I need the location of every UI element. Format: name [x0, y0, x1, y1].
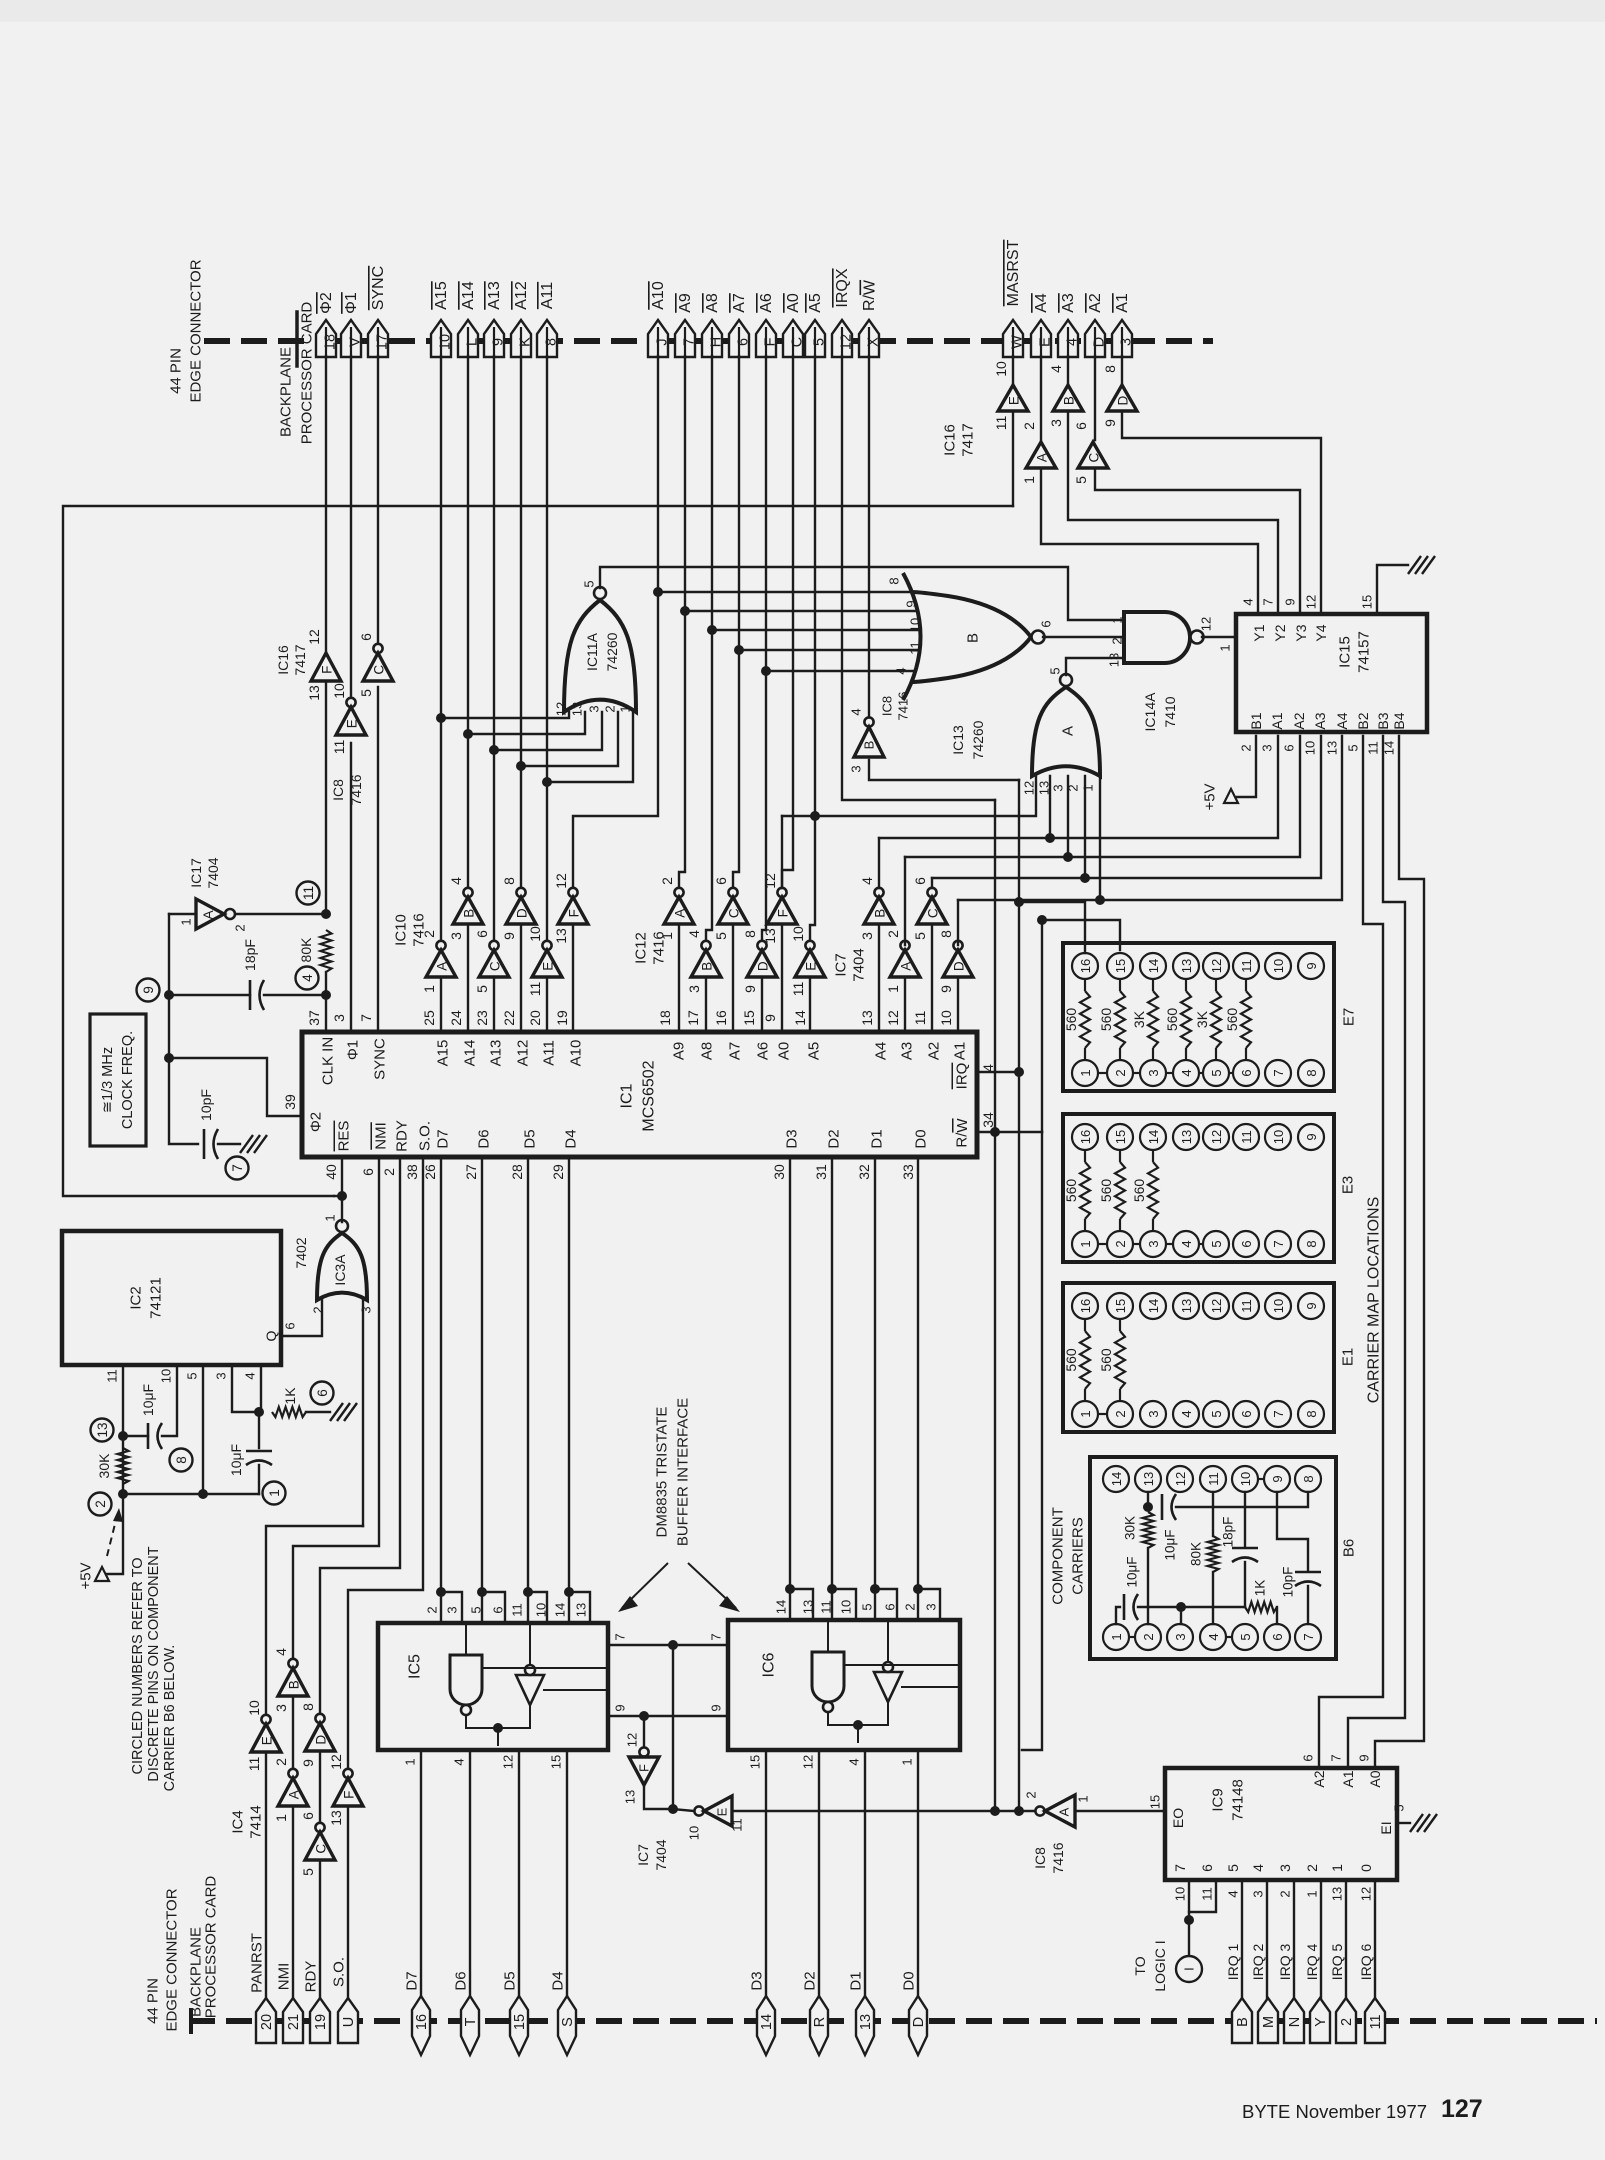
svg-text:9: 9: [1102, 419, 1118, 427]
svg-text:E: E: [1038, 337, 1054, 347]
component carrier E1 pin circles: [1072, 1293, 1098, 1319]
svg-text:A4: A4: [873, 1042, 890, 1060]
IC5 internal NAND: [450, 1655, 482, 1705]
svg-text:F: F: [320, 666, 335, 674]
svg-text:0: 0: [1358, 1864, 1374, 1872]
svg-text:5: 5: [812, 338, 828, 346]
svg-text:B: B: [700, 962, 715, 971]
inverter IC8B (R/W buffer): [864, 717, 873, 726]
svg-text:10μF: 10μF: [228, 1444, 244, 1476]
svg-text:A3: A3: [1312, 712, 1328, 729]
wire gateA in13: [1049, 776, 1051, 838]
wire IC6 out 12: [818, 1750, 820, 1998]
svg-text:B6: B6: [1341, 1539, 1358, 1557]
svg-text:3: 3: [1146, 1069, 1161, 1076]
svg-text:5: 5: [300, 1868, 316, 1876]
wire IC7A out up: [904, 857, 906, 945]
svg-text:11: 11: [301, 886, 316, 900]
NAND gate IC14A 7410: [1124, 612, 1190, 663]
wire RDY chain lower: [319, 1862, 321, 1998]
IC5 internal inverter: [516, 1675, 544, 1705]
wire PANRST chain: [265, 1752, 267, 1998]
inverter IC7E: [694, 1806, 703, 1815]
svg-text:9: 9: [1304, 1302, 1319, 1309]
svg-text:15: 15: [748, 1755, 763, 1769]
wire B6 node3 run: [1138, 1606, 1245, 1608]
wire IC6 out 4: [864, 1750, 866, 1998]
svg-text:10: 10: [1271, 1299, 1286, 1313]
svg-text:≅1/3 MHz: ≅1/3 MHz: [100, 1047, 116, 1113]
wire B6 pin1 up: [1116, 1607, 1120, 1624]
svg-text:1: 1: [1329, 1864, 1345, 1872]
inverter IC12C: [728, 888, 737, 897]
svg-text:7404: 7404: [653, 1839, 669, 1870]
svg-text:4: 4: [1250, 1864, 1266, 1872]
svg-text:11: 11: [819, 1600, 834, 1614]
svg-text:A: A: [200, 910, 216, 920]
svg-text:560: 560: [1063, 1179, 1079, 1203]
svg-text:1: 1: [1218, 644, 1233, 651]
junction RW top: [1037, 915, 1047, 925]
svg-text:14: 14: [1146, 1130, 1161, 1144]
svg-text:1: 1: [1110, 616, 1125, 623]
run A-inv 878: [932, 736, 1321, 878]
svg-text:13: 13: [1037, 781, 1052, 795]
svg-text:B: B: [965, 633, 982, 643]
svg-text:20: 20: [527, 1010, 543, 1026]
svg-text:13: 13: [801, 1600, 816, 1614]
svg-text:11: 11: [1206, 1472, 1221, 1486]
node TO LOGIC 1: [1176, 1956, 1202, 1982]
svg-text:SYNC: SYNC: [370, 266, 387, 310]
buffer IC8E (phi1): [346, 698, 355, 707]
svg-text:21: 21: [286, 2014, 302, 2030]
junction IRQ top: [1014, 897, 1024, 907]
junction IRQ on run: [1014, 1806, 1024, 1816]
junction A-line at y=718: [436, 713, 446, 723]
svg-text:7: 7: [1261, 598, 1276, 605]
svg-text:15: 15: [1360, 595, 1375, 609]
svg-text:6: 6: [300, 1812, 316, 1820]
svg-text:C: C: [372, 665, 387, 675]
svg-text:13: 13: [1141, 1472, 1156, 1486]
svg-text:IRQ 3: IRQ 3: [1277, 1944, 1293, 1981]
svg-text:A11: A11: [541, 1040, 558, 1066]
svg-text:14: 14: [1146, 1299, 1161, 1313]
svg-text:8: 8: [1304, 1410, 1319, 1417]
svg-text:A3: A3: [899, 1042, 916, 1060]
svg-text:3: 3: [359, 1306, 374, 1313]
capacitor 10uF (B6 bottom): [1123, 1594, 1126, 1620]
svg-text:12: 12: [801, 1755, 816, 1769]
svg-text:N: N: [1287, 2017, 1303, 2027]
svg-text:2: 2: [425, 1606, 440, 1613]
edge pin Y: [1310, 1998, 1330, 2043]
svg-text:C: C: [314, 1844, 329, 1854]
svg-text:12: 12: [839, 334, 855, 350]
svg-text:2: 2: [885, 930, 901, 938]
wire IC2 pin10 down: [162, 1365, 177, 1436]
wire IRQ 2 line: [1266, 1880, 1268, 1998]
component carrier E3 resistors: [1084, 1150, 1086, 1162]
wire RW vertical b: [994, 800, 996, 1811]
wire IC9 pin7 down: [1188, 1880, 1190, 1920]
svg-text:B: B: [1235, 2017, 1251, 2027]
svg-text:10: 10: [527, 926, 543, 942]
wire node3 down: [258, 1412, 260, 1448]
wire IRQ 4 line: [1320, 1880, 1322, 1998]
wire 80K to CLKIN junction: [325, 972, 327, 995]
svg-text:+5V: +5V: [1202, 783, 1219, 810]
svg-text:IRQ: IRQ: [954, 1063, 971, 1090]
svg-text:1: 1: [1021, 476, 1037, 484]
svg-text:A8: A8: [704, 293, 721, 313]
svg-text:1: 1: [1109, 1633, 1124, 1640]
svg-text:6: 6: [883, 1603, 898, 1610]
wire D-line x441: [440, 1157, 442, 1623]
svg-text:I: I: [1182, 1967, 1197, 1971]
svg-text:7: 7: [709, 1633, 724, 1640]
OR gate A (IC13 74260): [1032, 687, 1100, 776]
svg-text:13: 13: [1179, 959, 1194, 973]
svg-text:10: 10: [331, 683, 347, 699]
svg-text:IRQ 5: IRQ 5: [1329, 1944, 1345, 1981]
svg-text:2: 2: [659, 877, 675, 885]
svg-text:1: 1: [273, 1814, 289, 1822]
wire A13 vertical: [493, 356, 495, 945]
inverter IC10A: [436, 941, 445, 950]
svg-text:B: B: [462, 909, 477, 918]
svg-text:4: 4: [1065, 338, 1081, 346]
svg-text:34: 34: [980, 1112, 996, 1128]
svg-text:IRQ 6: IRQ 6: [1358, 1944, 1374, 1981]
IC9 74148: [1165, 1768, 1397, 1880]
wire SO chain upper: [348, 1157, 423, 1776]
wire D stub x918: [918, 1589, 940, 1620]
svg-text:A: A: [435, 962, 450, 971]
svg-text:4: 4: [452, 1758, 467, 1765]
svg-text:10pF: 10pF: [198, 1089, 214, 1121]
svg-text:3: 3: [448, 932, 464, 940]
svg-text:BUFFER INTERFACE: BUFFER INTERFACE: [675, 1398, 692, 1546]
wire IRQ 5 line: [1345, 1880, 1347, 1998]
wire +5V drop: [106, 1494, 123, 1574]
svg-text:F: F: [776, 909, 791, 917]
svg-text:E: E: [260, 1736, 275, 1745]
svg-text:3: 3: [924, 1603, 939, 1610]
svg-text:IRQ 2: IRQ 2: [1250, 1944, 1266, 1981]
wire IC5 out 1: [420, 1750, 422, 1998]
svg-text:7: 7: [1271, 1410, 1286, 1417]
svg-text:15: 15: [1113, 1130, 1128, 1144]
svg-text:8: 8: [544, 338, 560, 346]
run A-inv 857: [905, 736, 1300, 857]
svg-text:IRQ 4: IRQ 4: [1304, 1944, 1320, 1981]
svg-text:4: 4: [300, 974, 315, 982]
svg-text:12: 12: [625, 1733, 640, 1747]
svg-text:A14: A14: [462, 1040, 479, 1067]
svg-text:80K: 80K: [298, 937, 314, 963]
capacitor 18pF (B6): [1232, 1547, 1258, 1550]
edge pin N: [1284, 1998, 1304, 2043]
svg-text:5: 5: [1392, 1804, 1407, 1811]
svg-text:12: 12: [1304, 595, 1319, 609]
svg-text:10: 10: [1271, 1130, 1286, 1144]
svg-text:Y4: Y4: [1313, 624, 1329, 641]
inverter IC7D: [953, 941, 962, 950]
IC5 internal wires: [465, 1623, 467, 1655]
junction IRQ at CPU stub: [1014, 1067, 1024, 1077]
+5V arrow (IC2): [95, 1567, 109, 1581]
capacitor 10uF (IC2 pin10): [147, 1423, 150, 1449]
svg-text:11: 11: [1200, 1887, 1215, 1901]
svg-text:IC11A: IC11A: [584, 632, 600, 671]
edge pin S (D4): [558, 1996, 576, 2055]
wire IC7C to CPU: [931, 924, 933, 1032]
svg-text:A2: A2: [1291, 712, 1307, 729]
wire gateA in3: [1067, 776, 1069, 857]
wire cap18 left: [169, 994, 250, 996]
wire gateA out: [1066, 658, 1124, 675]
wire B6 pin10 down: [1244, 1492, 1246, 1546]
svg-text:4: 4: [448, 877, 464, 885]
svg-text:D4: D4: [563, 1129, 580, 1148]
svg-text:A2: A2: [926, 1042, 943, 1060]
svg-text:4: 4: [980, 1064, 996, 1072]
svg-text:3: 3: [1146, 1410, 1161, 1417]
svg-text:5: 5: [185, 1372, 200, 1379]
svg-text:19: 19: [313, 2014, 329, 2030]
svg-text:1: 1: [1078, 1240, 1093, 1247]
wire IC2 pin4 down: [260, 1365, 262, 1412]
svg-text:A: A: [1057, 1807, 1072, 1816]
svg-text:IC17: IC17: [188, 858, 204, 888]
junction node osc bottom: [164, 1053, 174, 1063]
svg-text:560: 560: [1063, 1008, 1079, 1032]
wire IC2 pin11 down: [122, 1365, 124, 1494]
wire A3 (IC16B to Y2 run): [1068, 411, 1278, 614]
svg-text:D: D: [515, 908, 530, 918]
component carrier E1: [1063, 1283, 1334, 1432]
svg-text:8: 8: [1304, 1069, 1319, 1076]
junction node2: [118, 1489, 128, 1499]
svg-text:80K: 80K: [1189, 1542, 1204, 1566]
wire RW jog c: [1022, 1132, 1042, 1750]
svg-text:E: E: [1007, 396, 1022, 405]
run A-inv 900: [958, 736, 1342, 900]
svg-text:F: F: [342, 1791, 357, 1799]
svg-text:6: 6: [1073, 422, 1089, 430]
resistor 1K (IC2): [272, 1407, 306, 1417]
svg-text:A2: A2: [1087, 293, 1104, 313]
svg-text:A3: A3: [1060, 293, 1077, 313]
svg-text:38: 38: [404, 1164, 420, 1180]
svg-text:CLOCK FREQ.: CLOCK FREQ.: [120, 1031, 136, 1129]
svg-text:3: 3: [587, 705, 602, 712]
svg-text:13: 13: [574, 1603, 589, 1617]
svg-text:74148: 74148: [1230, 1779, 1247, 1821]
wire gateB input 5: [766, 670, 915, 672]
svg-text:A15: A15: [435, 1040, 452, 1067]
edge pin 21 (NMI): [283, 1998, 303, 2043]
svg-text:E: E: [715, 1807, 730, 1816]
wire B2 run: [1319, 736, 1383, 1768]
wire IC10A to CPU: [440, 977, 442, 1032]
svg-text:12: 12: [501, 1755, 516, 1769]
svg-text:A13: A13: [486, 281, 503, 310]
svg-text:7: 7: [1172, 1864, 1188, 1872]
svg-text:1: 1: [1076, 1795, 1091, 1802]
wire B6 pin9 jog: [1277, 1492, 1308, 1570]
wire A12 vertical: [520, 356, 522, 888]
svg-text:12: 12: [1209, 959, 1224, 973]
IC6 internal inverter: [874, 1672, 902, 1702]
svg-text:4: 4: [273, 1648, 289, 1656]
wire IC12F to CPU: [781, 924, 783, 1032]
edge pin 20 (PANRST): [256, 1998, 276, 2043]
wire pin7 enable: [608, 1644, 728, 1646]
wire B4 run: [1375, 736, 1424, 1768]
svg-text:5: 5: [713, 932, 729, 940]
svg-text:11: 11: [790, 982, 806, 997]
wire IC15 pin15 to gnd: [1377, 565, 1408, 614]
svg-text:A4: A4: [1334, 712, 1350, 729]
wire IC12F out up: [781, 816, 783, 888]
svg-text:12: 12: [885, 1010, 901, 1026]
capacitor 10uF (IC2 pin34 node): [246, 1450, 272, 1453]
edge pin R (D2): [810, 1996, 828, 2055]
svg-text:IC16: IC16: [942, 424, 959, 456]
svg-text:D2: D2: [826, 1129, 843, 1148]
svg-text:560: 560: [1063, 1348, 1079, 1372]
svg-text:A0: A0: [785, 293, 802, 313]
svg-text:7: 7: [1301, 1633, 1316, 1640]
wire IC10B to CPU: [467, 924, 469, 1032]
svg-text:4: 4: [1206, 1633, 1221, 1640]
wire IC5 out 4: [469, 1750, 471, 1998]
edge pin 12 (IRQX): [832, 320, 852, 357]
buffer IC16D: [1107, 385, 1137, 411]
wire IC10E to CPU: [546, 977, 548, 1032]
wire NMI chain mid: [292, 1698, 294, 1776]
svg-text:37: 37: [306, 1010, 322, 1026]
junction D stub x528: [523, 1587, 533, 1597]
svg-text:LOGIC I: LOGIC I: [1152, 1940, 1168, 1991]
wire IC8A to IC9 EO: [1076, 1810, 1165, 1812]
svg-text:10μF: 10μF: [1163, 1529, 1178, 1560]
wire IC12C to CPU: [732, 924, 734, 1032]
svg-text:A15: A15: [433, 281, 450, 310]
wire IC6 out 1: [917, 1750, 919, 1998]
svg-text:7404: 7404: [205, 857, 221, 888]
svg-text:IC14A: IC14A: [1142, 692, 1158, 732]
svg-text:12: 12: [1199, 617, 1214, 631]
wire D-line x918: [917, 1157, 919, 1620]
svg-text:5: 5: [474, 985, 490, 993]
svg-text:A1: A1: [1269, 712, 1285, 729]
svg-text:5: 5: [1346, 744, 1361, 751]
svg-text:2: 2: [1021, 422, 1037, 430]
junction D stub x482: [477, 1587, 487, 1597]
svg-text:13: 13: [570, 702, 585, 716]
bottom edge connector dashed bus line: [189, 2018, 1597, 2024]
wire IC3A in3 down: [362, 1300, 364, 1526]
svg-text:13: 13: [306, 685, 322, 701]
wire IC17A input drop: [169, 913, 196, 915]
svg-text:22: 22: [501, 1010, 517, 1026]
svg-text:E: E: [804, 962, 819, 971]
svg-text:IC5: IC5: [407, 1654, 424, 1679]
wire node line 1494: [123, 1493, 259, 1495]
svg-text:11: 11: [331, 740, 347, 755]
svg-text:R/W: R/W: [861, 279, 878, 311]
svg-text:11: 11: [908, 641, 923, 655]
junction D stub x569: [564, 1587, 574, 1597]
svg-text:6: 6: [474, 930, 490, 938]
component carrier B6: [1090, 1457, 1336, 1659]
edge pin 8 (A11): [537, 320, 557, 357]
svg-text:1: 1: [900, 1758, 915, 1765]
svg-text:6: 6: [736, 338, 752, 346]
svg-text:Φ2: Φ2: [308, 1112, 325, 1132]
svg-text:D: D: [756, 961, 771, 971]
svg-text:A1: A1: [1340, 1770, 1356, 1787]
wire IC7E out: [673, 1809, 694, 1811]
junction gateA13: [1045, 833, 1055, 843]
junction CLKIN mid: [321, 990, 331, 1000]
NOR gate IC3A 7402: [317, 1233, 367, 1300]
svg-text:29: 29: [550, 1164, 566, 1180]
svg-text:10μF: 10μF: [140, 1384, 156, 1416]
svg-text:D7: D7: [404, 1971, 421, 1990]
svg-text:12: 12: [1022, 781, 1037, 795]
wire osc to phi2 pin39: [169, 1058, 302, 1116]
OR gate IC11A 74260: [564, 600, 636, 712]
wire B6 cap to pin8: [1176, 1492, 1308, 1507]
svg-text:A0: A0: [776, 1042, 793, 1060]
svg-text:7416: 7416: [651, 931, 668, 964]
wire B3 run: [1348, 736, 1405, 1768]
edge pin W (MASRST): [1003, 320, 1023, 357]
svg-text:23: 23: [474, 1010, 490, 1026]
svg-text:D: D: [1092, 337, 1108, 347]
wire A0 vertical: [782, 356, 793, 888]
wire IC2 pin3 down: [232, 1365, 259, 1412]
junction pin9 node: [639, 1711, 649, 1721]
wire IC5 out 12: [518, 1750, 520, 1998]
svg-text:3: 3: [1048, 419, 1064, 427]
svg-text:32: 32: [856, 1164, 872, 1180]
IC6 internal NAND: [812, 1652, 844, 1702]
svg-text:B: B: [873, 909, 888, 918]
svg-text:D3: D3: [784, 1129, 801, 1148]
svg-text:1: 1: [618, 705, 633, 712]
IC6 DM8835: [728, 1620, 960, 1750]
svg-text:7: 7: [358, 1014, 374, 1022]
svg-text:6: 6: [491, 1606, 506, 1613]
svg-text:SYNC: SYNC: [372, 1038, 389, 1080]
svg-text:U: U: [341, 2017, 357, 2027]
svg-text:7416: 7416: [411, 913, 428, 946]
svg-text:3: 3: [445, 1606, 460, 1613]
svg-text:9: 9: [1357, 1754, 1372, 1761]
svg-text:16: 16: [713, 1010, 729, 1026]
svg-text:NMI: NMI: [276, 1963, 293, 1991]
buffer IC16C: [1078, 442, 1108, 468]
svg-text:18pF: 18pF: [1221, 1517, 1236, 1548]
svg-text:B: B: [1062, 396, 1077, 405]
svg-text:D: D: [911, 2017, 927, 2027]
